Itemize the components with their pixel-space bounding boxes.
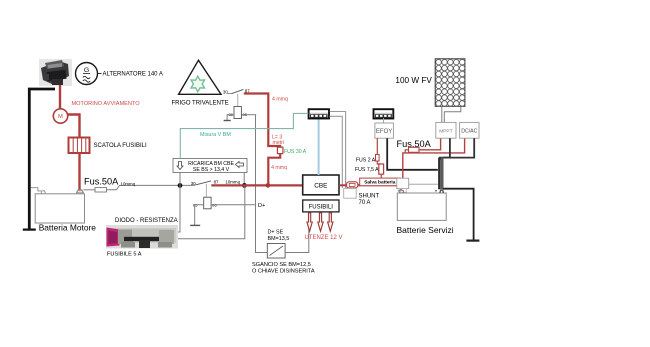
frigo star [191, 76, 205, 92]
wire grey salva relay to bundle [409, 183, 438, 185]
ricarica BM CBE box [173, 159, 247, 174]
alternator photo [39, 59, 72, 86]
svg-text:M: M [58, 114, 63, 120]
wire panel to MPPT A [441, 106, 443, 122]
CBE box [303, 175, 339, 195]
svg-text:FUSIBILE 5 A: FUSIBILE 5 A [107, 252, 142, 258]
alternator symbol U-G [76, 63, 98, 85]
ground frigo relay [224, 120, 231, 122]
wire teal connector2 to EFOY [383, 118, 385, 123]
fuse FUS 30A body [277, 147, 283, 153]
relay coil frigo [229, 107, 248, 119]
svg-text:SHUNT: SHUNT [359, 194, 380, 200]
wire D+ vertical [256, 115, 268, 253]
shunt body [344, 182, 358, 198]
connector block 2 [374, 109, 394, 118]
wire panel to MPPT B [444, 106, 461, 122]
DC/AC box [460, 122, 479, 138]
ground chassis tick batteria motore [23, 229, 36, 231]
junction node dot2 [242, 183, 247, 188]
svg-text:BM=13,5: BM=13,5 [268, 236, 290, 242]
MPPT box [436, 122, 456, 138]
scatola fusibili box [69, 138, 90, 154]
wire coil to D+ [211, 204, 255, 206]
motor M circle [53, 109, 67, 123]
svg-text:100 W FV: 100 W FV [395, 76, 432, 85]
wire red fuse left stub [405, 150, 408, 153]
wire teal misura V BM [180, 113, 308, 158]
wire red to fuse 7,5A [377, 161, 381, 164]
fuse FUS 7,5A body [379, 164, 384, 174]
svg-text:+: + [397, 189, 400, 194]
wire frigo coil to D+ line [241, 114, 256, 116]
svg-text:MPPT: MPPT [439, 129, 452, 135]
svg-text:Batterie Servizi: Batterie Servizi [397, 225, 454, 235]
wire red scatola to battery motore positive [78, 153, 80, 190]
arrow utenze 1 [307, 213, 312, 232]
wire black EFOY negative [387, 138, 438, 170]
svg-text:FUS 30 A: FUS 30 A [284, 149, 307, 155]
svg-text:30: 30 [191, 181, 196, 186]
wire red fuse to salva batteria [380, 174, 382, 178]
svg-text:SCATOLA FUSIBILI: SCATOLA FUSIBILI [94, 143, 147, 149]
svg-text:SE BS > 13,4 V: SE BS > 13,4 V [193, 167, 230, 173]
svg-text:EFOY: EFOY [376, 129, 392, 135]
wire black MPPT negative [440, 138, 450, 160]
wire coil to ground [195, 205, 204, 225]
wire red bus to CBE [211, 184, 302, 186]
connector block 1 [309, 109, 329, 118]
svg-text:metri: metri [273, 140, 285, 146]
wire red battery plus to solar fuse [403, 138, 465, 178]
solar panel 100W [435, 59, 465, 107]
svg-text:10mmq: 10mmq [121, 182, 136, 187]
wire red frigo 4mmq down [244, 94, 280, 148]
svg-text:CBE: CBE [314, 183, 327, 190]
relay coil ricarica [193, 184, 217, 209]
terminal clamp batteria motore positive [77, 190, 84, 193]
battery servizi box [397, 189, 446, 221]
svg-text:UTENZE 12 V: UTENZE 12 V [305, 235, 343, 241]
wire grey fuse row to main bus [84, 189, 96, 191]
wire black battery motore negative [29, 89, 55, 229]
svg-text:SGANCIO SE BM=12,5: SGANCIO SE BM=12,5 [252, 262, 311, 268]
wire dot1 to ricarica box [179, 173, 181, 186]
fuse Fus.50A solar body [409, 147, 420, 152]
svg-text:FUS 7,5 A: FUS 7,5 A [355, 167, 379, 173]
arrow utenze 3 [328, 213, 333, 232]
svg-text:FUSIBILI: FUSIBILI [309, 205, 334, 211]
svg-text:Misura V BM: Misura V BM [200, 132, 231, 138]
svg-text:87: 87 [214, 180, 219, 185]
svg-text:ALTERNATORE 140 A: ALTERNATORE 140 A [103, 72, 163, 78]
svg-text:10mmq: 10mmq [225, 180, 240, 185]
svg-text:RICARICA BM CBE: RICARICA BM CBE [188, 161, 234, 167]
junction red dot [266, 183, 271, 188]
fuse FUS 2A body [376, 155, 380, 162]
wire sgancio to fusibili [285, 212, 309, 253]
svg-text:DIODO - RESISTENZA: DIODO - RESISTENZA [115, 218, 178, 224]
frigo triangle [179, 60, 221, 94]
arrow utenze 2 [318, 213, 323, 232]
wire blue connector to CBE [318, 119, 320, 176]
wire red shunt to battery plus [358, 185, 401, 189]
wire grey shunt sense B [330, 116, 343, 188]
svg-text:FRIGO TRIVALENTE: FRIGO TRIVALENTE [172, 101, 229, 107]
ground battery servizi [466, 240, 479, 242]
wire red below fuse to bus [268, 154, 280, 186]
svg-text:D+: D+ [258, 203, 265, 209]
wire black DCAC negative [443, 138, 474, 157]
wire dot2 to ricarica box [243, 173, 245, 186]
svg-text:G: G [84, 67, 89, 74]
wire red fuse to MPPT [419, 138, 441, 150]
svg-text:4 mmq: 4 mmq [272, 97, 288, 103]
svg-text:Batteria Motore: Batteria Motore [39, 223, 97, 233]
fuse Fus.50A left body [95, 188, 107, 192]
switch contact ricarica 30-87 [191, 180, 241, 186]
svg-text:DC/AC: DC/AC [461, 129, 477, 135]
ground ricarica relay [190, 224, 200, 226]
svg-text:Fus.50A: Fus.50A [84, 177, 119, 187]
salva batteria box [360, 178, 400, 186]
switch contact frigo 30-87 [223, 89, 250, 107]
wire alternator label lead [98, 73, 102, 75]
FUSIBILI box [303, 200, 339, 212]
wire diodo resistenza branch [178, 185, 245, 238]
svg-text:MOTORINO AVVIAMENTO: MOTORINO AVVIAMENTO [72, 101, 141, 107]
diodo resistenza photo [106, 225, 178, 249]
wire red alternator to M [59, 85, 61, 109]
svg-text:FUS 2 A: FUS 2 A [356, 157, 376, 163]
sgancio box [267, 244, 285, 259]
svg-text:D+ SE: D+ SE [268, 230, 284, 236]
svg-text:4 mmq: 4 mmq [271, 165, 287, 171]
wire grey shunt sense A [330, 112, 346, 189]
junction node dot1 [178, 183, 183, 188]
salva batteria relay box [397, 178, 409, 192]
wire red EFOY down [376, 138, 378, 154]
svg-text:70 A: 70 A [359, 200, 371, 206]
EFOY box [375, 123, 394, 138]
svg-text:O CHIAVE DISINSERITA: O CHIAVE DISINSERITA [252, 269, 315, 275]
wire red M to scatola fusibili [68, 115, 80, 138]
battery motore box [31, 188, 85, 223]
wire red CBE to shunt [339, 184, 347, 186]
wire black battery servizi negative to ground [443, 189, 474, 241]
wire dot1 down to diodo photo [178, 185, 180, 232]
cable bundle to battery [439, 158, 442, 190]
wire frigo coil to ground [227, 115, 234, 121]
svg-text:Salva batteria: Salva batteria [364, 180, 396, 186]
